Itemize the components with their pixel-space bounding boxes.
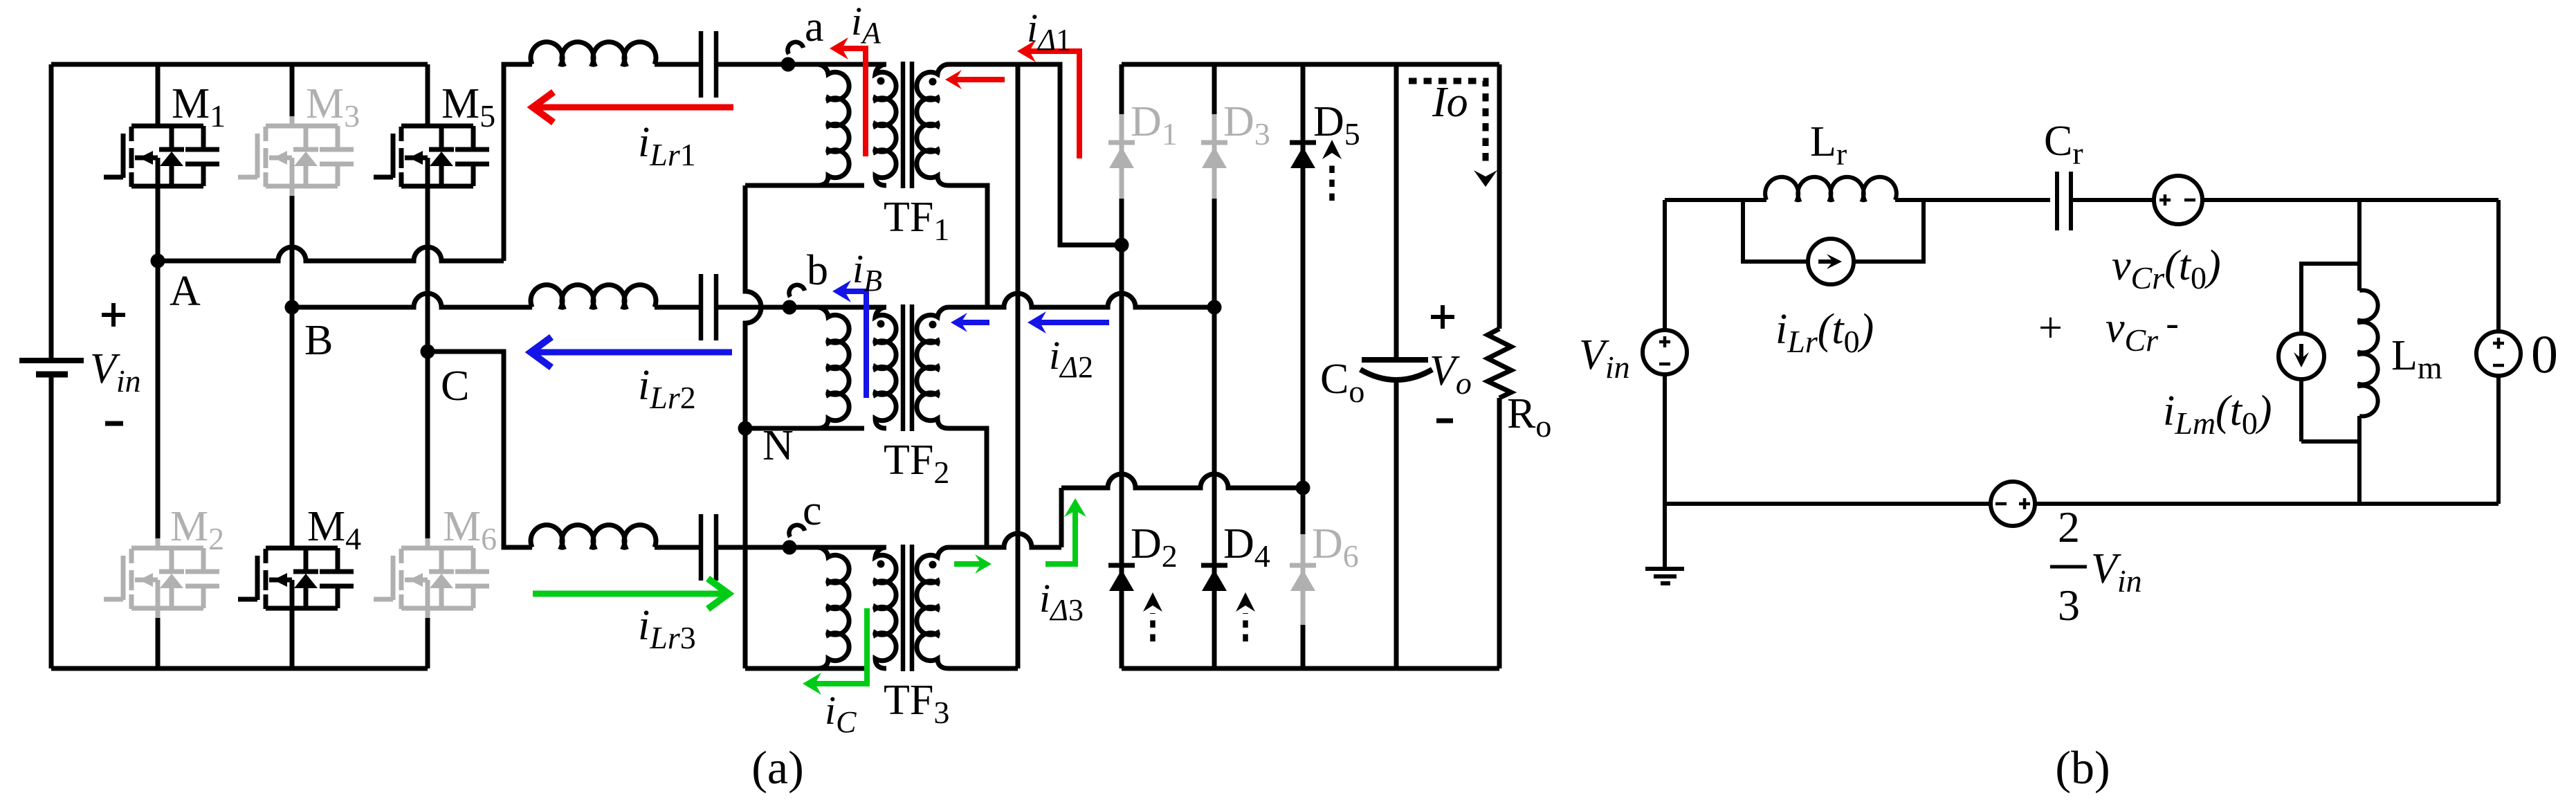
svg-text:M5: M5 [441, 80, 495, 134]
diode D5 [1290, 98, 1360, 168]
inductor Lr2 [531, 285, 656, 308]
arrow secondary current TF3 [954, 554, 992, 574]
wire b bottom right [2035, 502, 2499, 506]
arrow D2 conduction [1150, 613, 1155, 641]
arrow iLr3 [533, 578, 729, 609]
junction phase c rectifier [1296, 481, 1310, 495]
svg-text:D4: D4 [1223, 520, 1270, 574]
node a [781, 3, 824, 72]
arrow iC [803, 608, 867, 695]
svg-text:Cr: Cr [2044, 118, 2083, 171]
node A [151, 254, 201, 316]
polarity dot TF1 secondary [929, 78, 937, 86]
source Vin [1643, 330, 1687, 374]
svg-text:iLr(t0): iLr(t0) [1775, 306, 1874, 359]
wire row a [655, 62, 701, 67]
winding TF3 primary [875, 547, 896, 668]
wire leg C lower [426, 352, 430, 668]
capacitor Cr3 [701, 514, 716, 581]
svg-text:vCr(t0): vCr(t0) [2112, 242, 2221, 295]
winding TF2 secondary [917, 307, 949, 428]
svg-text:3: 3 [2058, 581, 2080, 630]
wire TF2 primary top [789, 305, 886, 310]
svg-text:D2: D2 [1131, 520, 1178, 574]
polarity dot TF2 secondary [929, 321, 937, 329]
battery Vin [19, 64, 84, 668]
arrow secondary current TF1 [945, 70, 1005, 89]
polarity dot TF2 primary [877, 320, 885, 328]
svg-text:iΔ3: iΔ3 [1039, 576, 1084, 627]
diode D6 [1290, 520, 1359, 591]
svg-text:iLr3: iLr3 [638, 602, 696, 655]
svg-text:iA: iA [851, 0, 881, 50]
svg-text:Co: Co [1320, 356, 1364, 409]
diode D2 [1108, 520, 1178, 591]
wire b top mid2 [2071, 198, 2154, 202]
winding TF3 magnetizing [817, 547, 849, 668]
arrow Io [1409, 81, 1486, 166]
svg-text:iLr2: iLr2 [638, 362, 696, 415]
transistor M1 [104, 80, 226, 196]
resistor Ro [1488, 329, 1551, 444]
wire leg B upper [290, 64, 295, 307]
transistor M3 [238, 80, 360, 196]
source iLr(t0) [1808, 239, 1854, 284]
label 2/3 Vin [2050, 502, 2142, 630]
transistor M4 [238, 503, 361, 618]
svg-text:Io: Io [1432, 79, 1468, 126]
svg-text:iLm(t0): iLm(t0) [2163, 388, 2272, 441]
inductor Lr3 [531, 525, 656, 548]
svg-text:Lm: Lm [2391, 332, 2442, 385]
svg-text:TF2: TF2 [884, 437, 949, 490]
transistor M5 [374, 80, 495, 196]
wire TF1 primary top [789, 62, 886, 67]
transistor M2 [104, 503, 224, 618]
svg-text:M2: M2 [170, 503, 224, 556]
label Vo plus [1431, 315, 1454, 319]
wire rectifier leg 3 [1301, 64, 1306, 534]
svg-text:D3: D3 [1223, 98, 1270, 152]
winding TF3 secondary [917, 547, 949, 668]
wire b left [1663, 200, 1667, 330]
svg-text:M6: M6 [443, 503, 497, 556]
svg-text:c: c [803, 487, 822, 534]
wire row b [655, 305, 701, 310]
wire rectifier leg 1 [1120, 64, 1124, 114]
wire b top right [2202, 198, 2499, 202]
arrow iB [832, 280, 866, 398]
wire row b to node b [716, 305, 789, 310]
arrow iD2 [1027, 311, 1109, 334]
arrow iLr2 [531, 337, 732, 367]
svg-text:M3: M3 [306, 80, 360, 134]
source iLm(t0) [2278, 334, 2324, 379]
arrow iLr1 [533, 92, 733, 122]
wire bottom rail [51, 666, 428, 671]
svg-text:iLr1: iLr1 [638, 119, 696, 172]
svg-text:iC: iC [825, 688, 857, 739]
polarity dot TF3 primary [877, 561, 885, 568]
wire top rail [51, 62, 428, 67]
wire TF3 primary bottom [745, 666, 864, 671]
label Vo minus [1436, 419, 1453, 423]
wire TF3 secondary bottom [949, 666, 1018, 671]
wire leg B lower [290, 307, 295, 668]
capacitor Cr [2057, 172, 2071, 230]
source vCr(t0) [2154, 176, 2202, 224]
svg-text:b: b [807, 247, 828, 294]
wire row c [655, 545, 701, 550]
wire TF1 secondary bottom [949, 185, 987, 307]
wire rectifier bottom rail [1122, 666, 1499, 671]
polarity dot TF3 secondary [929, 561, 937, 569]
node N [738, 421, 794, 470]
winding TF1 magnetizing [817, 64, 849, 185]
transistor M6 [374, 503, 497, 618]
wire b top mid [1895, 198, 2050, 202]
wire TF1 primary bottom [745, 183, 864, 188]
wire iLm box [2301, 264, 2359, 441]
arrow secondary current TF2 [951, 313, 989, 332]
wire leg C upper [426, 64, 430, 352]
wire Lm riser [2357, 200, 2362, 291]
node b [783, 247, 829, 315]
polarity dot TF1 primary [877, 78, 885, 85]
wire TF3 primary top [789, 545, 886, 550]
svg-text:D6: D6 [1312, 520, 1359, 574]
junction phase b rectifier [1207, 300, 1222, 315]
arrow D4 conduction [1243, 613, 1248, 641]
svg-text:2: 2 [2058, 502, 2080, 552]
source 0 [2476, 331, 2521, 376]
svg-text:D5: D5 [1313, 98, 1360, 152]
wire row a to node a [716, 62, 788, 67]
wire b bottom left [1665, 502, 1991, 506]
source 2/3 Vin [1991, 482, 2035, 526]
node c [783, 487, 822, 555]
wire leg A lower [156, 261, 161, 668]
svg-text:+ vCr -: + vCr - [2038, 302, 2179, 358]
svg-text:C: C [441, 363, 469, 410]
arrow iD3 [1045, 498, 1086, 564]
wire b left lower [1663, 374, 1667, 569]
diode D4 [1201, 520, 1270, 591]
svg-text:(b): (b) [2055, 741, 2110, 794]
wire node A to phase a row [158, 247, 504, 261]
svg-text:Vin: Vin [2091, 545, 2142, 599]
label battery minus [105, 421, 123, 426]
wire node B to phase b row [292, 293, 532, 307]
wire TF1 secondary top to D1 junction [949, 64, 1115, 245]
svg-text:TF1: TF1 [884, 194, 949, 247]
winding TF2 primary [875, 307, 896, 428]
junction phase a rectifier [1115, 238, 1129, 253]
svg-text:iΔ2: iΔ2 [1049, 333, 1093, 384]
svg-text:iΔ1: iΔ1 [1027, 6, 1071, 57]
core TF2 [903, 304, 912, 431]
wire TF2 secondary top to D3 junction [949, 293, 1208, 307]
svg-text:A: A [170, 268, 201, 315]
svg-text:0: 0 [2531, 324, 2558, 384]
svg-text:Lr: Lr [1810, 118, 1847, 172]
inductor Lr [1765, 177, 1897, 201]
wire N vertical [745, 185, 761, 668]
capacitor Co [1320, 356, 1432, 409]
wire node C to phase c row [428, 352, 532, 547]
ground [1645, 567, 1684, 571]
wire leg A upper [156, 64, 161, 261]
node C [421, 345, 470, 410]
wire iLr box [1743, 200, 1924, 262]
arrow iD1 [1017, 40, 1079, 158]
wire rectifier leg 2 [1212, 64, 1217, 114]
svg-text:Vo: Vo [1429, 347, 1472, 401]
wire b top left [1665, 198, 1766, 202]
capacitor Cr2 [701, 274, 716, 340]
wire b right upper [2496, 200, 2501, 331]
wire row c to node c [716, 545, 789, 550]
wire Ro leg [1497, 64, 1502, 668]
svg-text:a: a [805, 3, 824, 51]
svg-text:Vin: Vin [1579, 331, 1630, 385]
wire Co leg [1394, 64, 1399, 668]
wire TF3 secondary riser to D5 junction [1059, 488, 1064, 547]
svg-text:TF3: TF3 [884, 677, 949, 730]
svg-text:Vin: Vin [90, 345, 141, 399]
svg-text:iB: iB [852, 246, 882, 298]
label battery plus [102, 303, 125, 327]
svg-text:Ro: Ro [1507, 390, 1551, 444]
winding TF1 primary [875, 64, 896, 185]
wire b right lower [2496, 376, 2501, 504]
wire delta vertical [1016, 64, 1021, 668]
wire TF3 secondary top [949, 534, 1061, 547]
diode D3 [1201, 98, 1270, 168]
node B [285, 300, 334, 365]
winding TF1 secondary [917, 64, 949, 185]
wire TF2 primary bottom [745, 426, 864, 431]
svg-text:B: B [304, 317, 333, 364]
diode D1 [1108, 98, 1178, 168]
svg-text:M4: M4 [307, 503, 361, 556]
wire Lm lower [2357, 416, 2362, 504]
svg-text:(a): (a) [751, 741, 803, 794]
core TF3 [903, 545, 912, 671]
svg-text:D1: D1 [1131, 98, 1178, 152]
capacitor Cr1 [701, 31, 716, 98]
arrow iA [830, 37, 866, 156]
core TF1 [903, 62, 912, 188]
arrow D5 conduction [1329, 161, 1335, 201]
wire TF2 secondary bottom [949, 428, 987, 547]
inductor Lr1 [531, 42, 656, 65]
wire rectifier top rail [1122, 62, 1499, 67]
winding TF2 magnetizing [817, 307, 849, 428]
svg-text:M1: M1 [172, 80, 226, 134]
inductor Lm [2359, 290, 2378, 416]
